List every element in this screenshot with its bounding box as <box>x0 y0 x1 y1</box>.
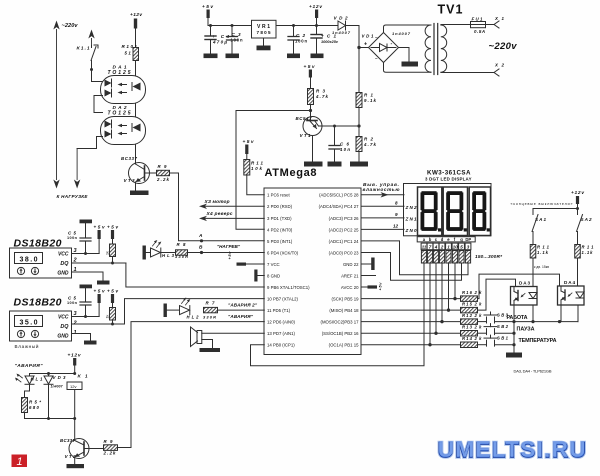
svg-text:(MOSI/OC2)PB3 17: (MOSI/OC2)PB3 17 <box>321 320 360 325</box>
capacitor C3 100n <box>227 24 243 54</box>
svg-text:10k: 10k <box>251 166 263 171</box>
resistor R11 10k (reset pullup) <box>244 160 264 176</box>
power +5v (R3) <box>304 64 315 89</box>
svg-text:9: 9 <box>395 212 398 217</box>
resistor R12 2k <box>461 313 483 324</box>
svg-text:150...300R*: 150...300R* <box>475 254 503 260</box>
svg-text:UMELTSI.RU: UMELTSI.RU <box>438 436 586 461</box>
label X4 revers <box>206 211 233 217</box>
power +5v (s1 vcc) <box>94 225 105 254</box>
wire VT1 collector to junction <box>322 125 359 127</box>
svg-text:0.5A: 0.5A <box>474 29 485 34</box>
wire s2 VCC row <box>72 316 100 318</box>
pin 7 / pin 22 text <box>267 262 359 267</box>
wire bridge bottom to transformer <box>384 63 432 73</box>
page marker 1 <box>12 455 28 469</box>
ground VT1 <box>304 162 323 167</box>
svg-text:-: - <box>391 41 393 47</box>
power +12v label (rail) <box>309 4 322 27</box>
wire 12v rail <box>276 26 359 48</box>
wire segment col3 to PB <box>434 263 437 335</box>
svg-text:(ADC3) PC3 26: (ADC3) PC3 26 <box>329 216 359 221</box>
wire R11 to pin1 reset <box>247 175 264 195</box>
svg-text:+5v: +5v <box>202 4 213 10</box>
ground VT2 <box>67 464 85 468</box>
svg-text:+: + <box>364 42 367 48</box>
pin 9 / pin 20 text <box>267 285 359 290</box>
ground (GND pin8) <box>254 270 264 282</box>
svg-text:1: 1 <box>447 245 450 250</box>
wire segment col7 to PC0 (pin23) <box>361 253 461 281</box>
wire segment col8 to PC1 (pin24) <box>361 241 468 275</box>
svg-text:1 PC6 reset: 1 PC6 reset <box>267 193 290 198</box>
wire 5v rail <box>208 25 252 27</box>
wire bridge plus to R1 column <box>358 48 360 93</box>
resistor R9 2.2k (VT2 base) <box>89 439 118 455</box>
led HL1 <box>15 374 43 398</box>
wire relay bottom rail <box>25 417 77 420</box>
display HG1 KW3-361CSA labels <box>425 169 472 181</box>
switch K1.1 <box>77 45 99 70</box>
svg-text:«концевые выключатели»: «концевые выключатели» <box>511 202 573 206</box>
svg-text:10 PB7 (XTAL2): 10 PB7 (XTAL2) <box>267 297 299 302</box>
wire DA2 LED to VT3 <box>135 145 137 165</box>
wire switch common down <box>513 322 515 353</box>
label DA3 DA4 type <box>514 369 552 374</box>
mains line L2 arrow into switch <box>88 30 94 46</box>
net ZN1 wire (pin26) <box>361 212 417 222</box>
pin 10 / pin 19 text <box>267 297 359 302</box>
wire secondary bottom <box>441 72 494 74</box>
capacitor C2 100n <box>288 24 307 54</box>
svg-text:+5v: +5v <box>304 64 315 70</box>
svg-text:DP: DP <box>465 237 471 242</box>
wire s1 VCC row <box>72 253 100 255</box>
wire secondary top <box>441 24 471 26</box>
led HL2 <box>167 298 199 320</box>
wire SA rail <box>533 207 579 210</box>
resistor 1k (s1 DQ pullup) <box>105 244 115 265</box>
ground (above C5 s1) <box>80 220 93 239</box>
svg-text:1: 1 <box>74 330 77 336</box>
svg-text:+12v: +12v <box>309 4 322 10</box>
svg-text:(ADC5/SCL) PC5 28: (ADC5/SCL) PC5 28 <box>319 193 359 198</box>
node R1 R2 junction <box>357 124 360 127</box>
svg-text:12v: 12v <box>70 384 76 389</box>
svg-text:1000x25v: 1000x25v <box>321 40 339 44</box>
wire R10 to DA1 LED <box>135 61 137 76</box>
svg-text:1n4007: 1n4007 <box>332 30 351 35</box>
svg-text:(ADC0) PC0 23: (ADC0) PC0 23 <box>329 250 359 255</box>
svg-text:DQ: DQ <box>60 324 69 330</box>
svg-text:ZN0: ZN0 <box>405 228 417 233</box>
wire PB3 row17 to R12 <box>361 320 460 323</box>
svg-text:10: 10 <box>453 245 459 250</box>
ground (above C5 s2) <box>80 285 93 303</box>
svg-text:FU1: FU1 <box>472 17 484 22</box>
svg-text:B: B <box>199 245 203 251</box>
switch SA1 <box>532 209 546 245</box>
svg-text:ПАУЗА: ПАУЗА <box>517 327 535 333</box>
svg-text:~220v: ~220v <box>62 23 79 29</box>
wire segment col5 to PB <box>447 263 450 312</box>
ground C1 <box>311 54 324 59</box>
label Влажный <box>15 343 39 349</box>
resistor R5* 680 <box>22 398 42 419</box>
resistors 150...300R segment bank <box>421 251 503 264</box>
svg-text:ТЕМПЕРАТУРА: ТЕМПЕРАТУРА <box>519 338 557 344</box>
wire pin2 RXD with arrow <box>199 204 264 209</box>
net ZN0 wire (pin25) <box>361 223 417 233</box>
svg-text:1: 1 <box>17 456 23 468</box>
svg-text:11: 11 <box>422 245 427 250</box>
wire DA1 LED to DA2 LED <box>135 104 137 117</box>
label X3 motor <box>204 199 230 205</box>
wire collector tap to pin4 INT0 <box>236 111 311 230</box>
sensor DS18B20 #1 <box>10 238 72 279</box>
power +5v (VCC pin7) <box>227 251 264 266</box>
svg-text:1.1k: 1.1k <box>582 250 594 255</box>
wire R11b to DA4 anode <box>577 258 579 286</box>
power +12v (relay) <box>68 353 81 374</box>
svg-text:8 GND: 8 GND <box>267 273 280 278</box>
capacitor C5 100n (s2) <box>67 296 91 319</box>
svg-text:Х4 реверс: Х4 реверс <box>206 211 233 217</box>
wire sensor2 DQ to pin10 XTAL2 <box>125 299 265 324</box>
wire fuse to X1 <box>486 24 494 26</box>
node: K1.1 to DA1 junction <box>90 68 103 82</box>
label К НАГРУЗКЕ <box>57 194 89 199</box>
optocoupler DA2 TO125 <box>101 105 146 145</box>
svg-text:R11: R11 <box>582 245 595 250</box>
ground GND22 <box>361 258 374 271</box>
resistor R15 2k <box>461 302 483 313</box>
svg-text:680: 680 <box>29 405 40 410</box>
ground C2 <box>287 54 300 59</box>
svg-text:VCC: VCC <box>58 315 69 321</box>
svg-text:R11: R11 <box>251 161 264 166</box>
transistor VT3 BC337 <box>121 156 150 191</box>
svg-text:+5v: +5v <box>107 289 118 294</box>
svg-text:7805: 7805 <box>257 30 271 35</box>
svg-text:(ADC2) PC2 25: (ADC2) PC2 25 <box>329 227 359 232</box>
capacitor C5 100n (s1) <box>67 231 91 256</box>
svg-text:"НАГРЕВ": "НАГРЕВ" <box>217 244 241 249</box>
svg-text:2.2k: 2.2k <box>103 450 117 455</box>
svg-text:+5v: +5v <box>227 251 232 260</box>
svg-text:1.1k: 1.1k <box>537 250 549 255</box>
power +5v (s2 vcc) <box>94 289 105 317</box>
pin 1 / pin 28 text <box>267 193 359 198</box>
svg-text:+5v: +5v <box>243 139 254 145</box>
wire bridge minus to ground <box>399 48 419 67</box>
pin numbers 3 2 1 (sensor1) <box>73 248 78 273</box>
pin 3 / pin 26 text <box>267 216 359 221</box>
svg-text:2.2k: 2.2k <box>156 177 170 182</box>
pin 12 / pin 17 text <box>267 320 359 325</box>
pin 8 / pin 21 text <box>267 273 359 278</box>
sensor DS18B20 #2 <box>10 297 72 342</box>
wire R9 to pin5 PD3 <box>170 173 265 241</box>
label ~220v <box>62 23 79 29</box>
resistor R11 1.1k (SA2) <box>575 245 594 259</box>
svg-text:HL1: HL1 <box>31 377 44 382</box>
ground switches <box>506 353 522 358</box>
label АВАРИЯ (pin12) <box>228 314 254 319</box>
power +5v (s1 pullup) <box>107 225 118 245</box>
svg-text:SB1: SB1 <box>497 335 509 340</box>
label АВАРИЯ (relay) <box>15 363 44 369</box>
svg-text:DA3: DA3 <box>519 281 530 286</box>
svg-text:35.0: 35.0 <box>20 320 38 327</box>
pin 13 / pin 16 text <box>267 331 359 336</box>
svg-text:ZN1: ZN1 <box>405 216 417 221</box>
wire DA1 left pins <box>94 96 103 113</box>
optocoupler DA4 <box>558 280 585 305</box>
svg-text:12 PD6 (AIN0): 12 PD6 (AIN0) <box>267 320 296 325</box>
svg-text:1k: 1k <box>105 251 109 255</box>
svg-text:R14: R14 <box>462 336 473 341</box>
display digit 1 <box>418 187 442 236</box>
wire opto ground row <box>512 320 578 323</box>
wire s2 GND to ground <box>72 334 97 345</box>
svg-text:Влажный: Влажный <box>15 343 39 349</box>
svg-text:к дв. 15кв: к дв. 15кв <box>534 265 549 269</box>
svg-text:HL3: HL3 <box>162 253 175 258</box>
svg-text:HL2: HL2 <box>187 315 200 320</box>
svg-text:"АВАРИЯ": "АВАРИЯ" <box>15 363 44 369</box>
terminal bar (HL3) <box>143 246 146 260</box>
wire R7 to pin11 PD5 <box>218 309 265 311</box>
svg-text:R5*: R5* <box>29 400 41 405</box>
switch SB1 ТЕМПЕРАТУРА <box>478 335 557 346</box>
svg-text:100n: 100n <box>67 301 78 305</box>
terminal X1 <box>494 16 505 28</box>
svg-text:GND: GND <box>57 270 69 276</box>
power +12v (top-left) <box>130 12 142 48</box>
switch SB3 РАБОТА <box>478 312 528 323</box>
svg-text:6 PD4 (XCK/T0): 6 PD4 (XCK/T0) <box>267 250 299 255</box>
display digit 2 <box>443 187 467 236</box>
svg-text:38.0: 38.0 <box>20 257 38 264</box>
svg-text:9.1k: 9.1k <box>364 98 377 103</box>
svg-text:+5v: +5v <box>94 225 105 230</box>
resistor R7 330R <box>203 301 218 320</box>
wire R16 to DA4 collector <box>478 274 560 299</box>
bridge rectifier VD1 <box>357 31 410 63</box>
wire s1 DQ row <box>72 262 126 264</box>
pin 5 / pin 24 text <box>267 239 359 244</box>
mcu U1 ATMega8 <box>264 167 361 355</box>
node VT1 base tap <box>309 109 312 112</box>
wire PB4 row18 to R15 <box>361 309 460 312</box>
svg-text:VD2: VD2 <box>334 16 348 21</box>
capacitor C1 1000x25v <box>311 26 339 54</box>
svg-text:+5v: +5v <box>107 225 118 230</box>
ground VR1 <box>257 46 271 51</box>
resistor R13 2k <box>461 325 483 336</box>
diode VD3 1n4007 <box>44 374 66 419</box>
wire DA2 output to load <box>77 137 102 149</box>
resistor R3 4.7k <box>308 89 329 118</box>
resistor 1k (s2 DQ pullup) <box>105 308 115 326</box>
label ~220v (right) <box>489 41 518 52</box>
ground R2 <box>350 162 368 167</box>
svg-text:4 PD2 (INT0): 4 PD2 (INT0) <box>267 227 293 232</box>
svg-text:(SS/OC1B) PB2 16: (SS/OC1B) PB2 16 <box>322 331 359 336</box>
pin 4 / pin 25 text <box>267 227 359 232</box>
power +5v (reset pullup) <box>243 139 254 160</box>
svg-text:+5v: +5v <box>94 289 105 294</box>
wire DA4 cathode down <box>577 305 579 322</box>
svg-text:РАБОТА: РАБОТА <box>507 315 528 321</box>
svg-text:7 VCC: 7 VCC <box>267 262 280 267</box>
wire K1 to VT2 collector <box>74 419 76 441</box>
svg-text:2 PD0 (RXD): 2 PD0 (RXD) <box>267 204 293 209</box>
display segment letter strip <box>417 237 475 242</box>
resistor R1 9.1k <box>356 93 377 127</box>
svg-text:R16: R16 <box>462 290 473 295</box>
wire relay top rail <box>30 372 77 375</box>
regulator VR1 7805 <box>252 20 277 45</box>
svg-text:2: 2 <box>440 245 444 250</box>
svg-text:b: b <box>429 237 432 242</box>
pin 11 / pin 18 text <box>267 308 359 313</box>
svg-text:14 PB0 (ICP1): 14 PB0 (ICP1) <box>267 343 295 348</box>
switch SA2 <box>577 209 592 245</box>
svg-text:AREF 21: AREF 21 <box>341 273 359 278</box>
svg-text:7: 7 <box>429 245 432 250</box>
svg-text:4.7k: 4.7k <box>363 142 377 147</box>
ground C6 <box>328 162 342 167</box>
svg-text:4: 4 <box>434 245 438 250</box>
resistor R14 2k <box>461 336 483 347</box>
svg-text:SA2: SA2 <box>581 217 592 222</box>
power +5v (s2 pullup) <box>107 289 118 308</box>
optocoupler DA3 <box>511 281 538 305</box>
svg-text:ХЗ мотор: ХЗ мотор <box>204 199 230 205</box>
transistor VT2 BC337 <box>60 438 89 464</box>
pin 2 / pin 27 text <box>267 204 359 209</box>
svg-text:100n: 100n <box>295 39 307 44</box>
svg-text:10n: 10n <box>340 147 350 152</box>
label НАГРЕВ <box>217 244 241 249</box>
wire DA3 cathode down <box>532 305 534 322</box>
svg-text:+12v: +12v <box>130 12 142 18</box>
switch SB2 ПАУЗА <box>478 324 535 335</box>
mains line L1 double arrow <box>53 21 59 189</box>
wire segment col6 to PB <box>453 263 456 300</box>
svg-text:DA4: DA4 <box>564 280 575 285</box>
wire PB2 row16 to R13 <box>361 332 460 335</box>
node A <box>198 233 203 242</box>
pin 6 / pin 23 text <box>267 250 359 255</box>
resistor R9 2.2k (VT3 base) <box>150 164 170 182</box>
svg-text:(ADC1) PC1 24: (ADC1) PC1 24 <box>329 239 359 244</box>
svg-text:+12v: +12v <box>571 190 584 196</box>
resistor R8 330R <box>161 242 188 259</box>
wire bridge top to transformer <box>384 25 432 33</box>
diode VD2 1n4007 <box>332 16 351 36</box>
svg-text:3: 3 <box>467 245 470 250</box>
pin numbers 3 2 1 (sensor2) <box>73 311 78 336</box>
speaker BA <box>191 327 265 348</box>
svg-text:13 PD7 (AIN1): 13 PD7 (AIN1) <box>267 331 296 336</box>
svg-text:+5v: +5v <box>378 282 383 291</box>
svg-text:R12: R12 <box>462 313 473 318</box>
svg-text:R13: R13 <box>462 325 473 330</box>
wire s2 DQ row <box>72 323 125 325</box>
svg-text:VD1: VD1 <box>362 34 375 39</box>
fuse FU1 0.5A <box>471 17 486 35</box>
svg-text:(OC1A) PB1 15: (OC1A) PB1 15 <box>329 343 359 348</box>
svg-text:VD3: VD3 <box>53 375 67 380</box>
resistor R10* 51R <box>122 44 139 61</box>
power +5v (AVCC) <box>361 282 382 291</box>
svg-text:8: 8 <box>395 200 398 205</box>
svg-text:KW3-361CSA: KW3-361CSA <box>427 169 471 176</box>
svg-text:VT1: VT1 <box>300 133 311 138</box>
svg-text:K1.1: K1.1 <box>77 46 90 51</box>
svg-text:К НАГРУЗКЕ: К НАГРУЗКЕ <box>57 194 89 199</box>
wire sensor1 DQ to pin9 XTAL1 <box>126 263 264 287</box>
wire DA4 emitter down <box>560 305 562 322</box>
wire segment col2 to PB <box>428 263 431 346</box>
svg-text:AVCC 20: AVCC 20 <box>341 285 359 290</box>
svg-text:g: g <box>460 237 463 242</box>
svg-text:GND: GND <box>57 333 69 339</box>
svg-text:R11: R11 <box>537 245 550 250</box>
ground speaker <box>200 348 221 352</box>
resistor R2 4.7k <box>356 126 377 162</box>
capacitor C4 470u <box>205 24 229 54</box>
svg-text:DQ: DQ <box>60 261 69 267</box>
wire PB5 row19 to R16 <box>361 297 460 300</box>
wire pin3 TXD with arrow <box>199 216 264 221</box>
load output arrow <box>74 149 80 189</box>
svg-text:~: ~ <box>375 56 378 61</box>
label АВАРИЯ 2 <box>228 303 258 308</box>
svg-text:+12v: +12v <box>68 353 81 359</box>
svg-text:"АВАРИЯ 2": "АВАРИЯ 2" <box>228 303 258 308</box>
resistor R11 1.1k (SA1) <box>530 245 549 259</box>
resistor R16 2k <box>461 290 483 301</box>
ground VT3 <box>130 191 149 196</box>
node B <box>199 245 203 255</box>
svg-text:1n4007: 1n4007 <box>392 31 411 36</box>
svg-text:R15: R15 <box>462 302 473 307</box>
svg-text:ZN2: ZN2 <box>405 205 417 210</box>
svg-text:TV1: TV1 <box>438 3 463 17</box>
svg-text:1n4007: 1n4007 <box>51 385 64 389</box>
pin 14 / pin 15 text <box>267 343 359 348</box>
label концевые выключатели <box>511 202 573 206</box>
wire s1 GND to ground <box>72 272 110 285</box>
wire R15 to DA3 collector <box>478 279 516 310</box>
svg-text:d: d <box>441 237 444 242</box>
svg-text:(MISO) PB4 18: (MISO) PB4 18 <box>329 308 359 313</box>
svg-text:~: ~ <box>375 35 378 40</box>
display pin numbers <box>421 243 471 250</box>
svg-text:A: A <box>198 233 203 239</box>
wire AREF stub <box>361 275 375 277</box>
svg-text:11 PD5 (T1): 11 PD5 (T1) <box>267 308 291 313</box>
svg-text:9 PB6 XTAL1/TOSC1): 9 PB6 XTAL1/TOSC1) <box>267 285 310 290</box>
svg-text:5: 5 <box>460 245 463 250</box>
relay K1 <box>67 374 88 419</box>
svg-text:(ADC4/SDA) PC4 27: (ADC4/SDA) PC4 27 <box>319 204 359 209</box>
wire PB1 row15 to R14 <box>361 343 460 346</box>
